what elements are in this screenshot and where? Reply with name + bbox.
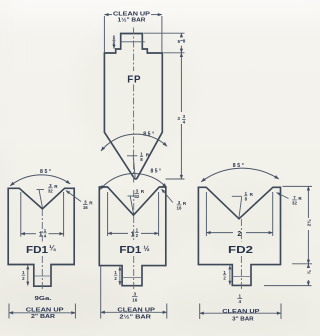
die FD1-1/4 centerline [41,209,43,290]
svg-text:85°: 85° [40,169,51,175]
svg-text:2½" BAR: 2½" BAR [119,313,151,320]
svg-text:3: 3 [177,116,180,121]
die FD1-1/2 shoulder radius label 3/16 R [162,189,173,203]
dimension: die FD2 opening width 2 [206,192,272,236]
punch FP outline [104,34,162,180]
svg-text:8: 8 [183,38,186,43]
die FD2 centerline [240,219,242,290]
die FD1-1/2 tang center tick [122,277,142,279]
die FD2 vee radius leader 1/8 R [232,196,242,217]
svg-text:32: 32 [292,201,297,206]
svg-text:FD2: FD2 [228,244,253,256]
svg-text:CLEAN UP: CLEAN UP [117,307,155,313]
punch centerline [133,28,135,184]
svg-text:85°: 85° [143,131,154,137]
svg-text:1: 1 [239,293,242,298]
die FD1-1/2 centerline [133,190,135,291]
svg-text:1: 1 [39,232,43,239]
die FD1-1/2 vee radius leader 3/32 R [128,196,136,214]
svg-text:2: 2 [237,231,241,238]
dimension: punch 5/8 (right, tang to body top) [144,33,185,53]
dimension: die FD1-1/2 CLEAN UP 2-1/2" BAR [101,267,167,319]
die FD2 outline [198,187,280,285]
die FD2 85 degree arc [201,168,279,182]
svg-text:1: 1 [131,231,135,238]
dimension: die FD2 tang height 1/2 [229,266,231,285]
dimension: CLEAN UP 1-1/2 BAR (top) [104,15,161,52]
dimension: die FD1-1/4 opening width 1-1/4 [21,192,64,237]
svg-text:3" BAR: 3" BAR [232,316,254,322]
die FD1-1/2 outline [99,187,166,286]
die2 85 degree angle arc (crosses punch tip) [100,173,166,189]
die FD1-1/4 shoulder radius label 3/16 R [66,191,81,202]
svg-text:32: 32 [134,194,139,199]
svg-text:85°: 85° [233,163,244,169]
die FD1-1/4 outline [8,188,74,286]
punch tip radius leader 1/8 R [127,156,137,178]
die FD2 tang center tick [232,276,251,278]
dimension: die FD1-1/2 tang height 1/2 [119,267,121,286]
svg-text:¼: ¼ [49,244,56,253]
die FD1-1/4 85 degree arc [10,175,70,186]
dimension: punch 3-3/4 (right, body top to tip) [166,53,185,179]
svg-text:2" BAR: 2" BAR [31,314,55,320]
punch tang horizontal centerline tick [121,41,145,43]
svg-text:85°: 85° [151,168,162,174]
dimension: tang height 1/2 (left of tang) [113,35,115,49]
svg-text:16: 16 [83,205,88,210]
die FD1-1/4 vee radius leader 3/32 R [37,190,45,208]
svg-text:32: 32 [48,188,53,193]
dimension: die FD1-1/4 CLEAN UP 2" BAR [9,304,75,319]
die FD1-1/4 tang center tick [34,275,51,277]
svg-text:3: 3 [134,291,137,296]
svg-text:4: 4 [239,299,242,304]
svg-text:1½" BAR: 1½" BAR [118,17,146,24]
svg-text:FD1: FD1 [26,245,48,256]
svg-text:½: ½ [143,244,149,253]
dimension: die FD1-1/4 tang height 1/2 [27,266,29,286]
svg-text:FD1: FD1 [119,245,141,256]
svg-text:9Ga.: 9Ga. [35,296,53,302]
dimension: die FD2 height (right side chain) [264,186,312,285]
svg-text:5: 5 [178,39,181,44]
punch 85 degree angle arc [101,134,167,151]
dimension: die FD2 CLEAN UP 3" BAR [200,304,281,320]
svg-text:FP: FP [127,73,141,85]
svg-text:16: 16 [177,206,182,211]
svg-text:CLEAN UP: CLEAN UP [113,11,151,17]
svg-text:CLEAN UP: CLEAN UP [26,308,64,314]
svg-text:16: 16 [132,297,138,302]
die FD2 shoulder radius label 7/32 R [277,193,289,199]
dimension: die FD1-1/2 opening width 1-1/2 [108,192,159,236]
svg-text:CLEAN UP: CLEAN UP [222,309,260,315]
